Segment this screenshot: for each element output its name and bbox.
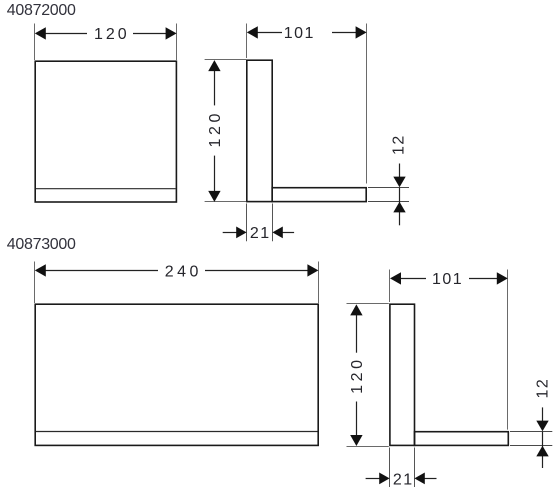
- svg-text:40873000: 40873000: [7, 236, 76, 253]
- svg-text:12: 12: [534, 378, 551, 399]
- svg-text:101: 101: [432, 271, 463, 288]
- svg-text:240: 240: [165, 263, 202, 280]
- svg-text:12: 12: [391, 134, 408, 155]
- svg-text:40872000: 40872000: [7, 2, 76, 19]
- svg-text:21: 21: [250, 225, 271, 242]
- svg-text:120: 120: [94, 26, 130, 43]
- svg-text:120: 120: [349, 356, 366, 394]
- svg-text:21: 21: [393, 471, 414, 488]
- svg-text:101: 101: [284, 25, 315, 42]
- svg-text:120: 120: [207, 110, 224, 148]
